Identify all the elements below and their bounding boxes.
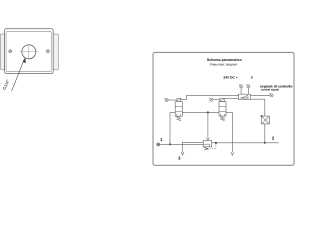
junction pilot branch — [207, 111, 209, 113]
port 1 symbol — [157, 143, 160, 146]
wire controller to restrictor branch — [250, 99, 264, 116]
rail regulator to port 2 — [212, 142, 279, 144]
port circle centerlines — [20, 44, 39, 59]
restrictor valve (square with X) — [262, 116, 270, 124]
pilot sense dashed line — [210, 144, 216, 149]
pilot line down to regulator — [207, 112, 209, 137]
controller U1 box — [239, 94, 251, 99]
exhaust arrow port 3 — [181, 152, 184, 155]
leader arrow to port — [12, 59, 25, 91]
mounting body left tab — [0, 34, 4, 70]
wire terminal to V2 coil — [213, 99, 220, 101]
V2 outlet to exhaust — [226, 112, 232, 152]
electrical terminal V1 coil — [164, 98, 168, 102]
line V1 to V2 — [182, 111, 219, 113]
regulator R1 box — [203, 140, 211, 146]
wire controller to control-signal terminal — [250, 94, 270, 96]
pilot arrowhead — [207, 138, 210, 141]
supply line V1 port — [170, 111, 175, 113]
screw hole right — [47, 50, 50, 53]
wire V1 coil to controller — [181, 95, 239, 99]
electrical terminal X3 control signal — [269, 93, 273, 97]
controller ramp symbol — [241, 95, 248, 98]
V2 body — [219, 102, 226, 117]
exhaust arrow right — [231, 152, 234, 155]
V1 return spring — [177, 116, 181, 121]
svg-text:Pneumatic diagram: Pneumatic diagram — [210, 63, 238, 67]
regulator inner passage — [203, 144, 209, 147]
wire V2 coil to controller — [224, 98, 238, 100]
svg-text:control signal: control signal — [261, 88, 279, 91]
schematic frame — [153, 52, 294, 165]
svg-text:Schema pneumatico: Schema pneumatico — [207, 58, 243, 62]
junction restrictor-rail — [264, 142, 266, 144]
svg-text:0: 0 — [251, 76, 253, 80]
V2 solenoid box — [220, 98, 224, 101]
wire restrictor to rail — [264, 124, 266, 143]
wire terminals to controller — [241, 88, 248, 94]
screw hole left — [9, 50, 12, 53]
wire V1 supply down to rail — [169, 112, 171, 144]
V1 body — [175, 102, 182, 117]
regulator exhaust branch to port 3 — [183, 142, 204, 152]
electrical terminal X2 (0V) — [246, 84, 250, 88]
V1 solenoid box — [177, 98, 181, 101]
junction supply-rail — [169, 143, 171, 145]
mounting body right tab — [53, 34, 58, 70]
electrical terminal X1 (24V) — [239, 84, 243, 88]
V2 return spring — [220, 116, 224, 121]
mounting body inner plate outline — [6, 32, 51, 72]
mounting body outer plate — [5, 29, 54, 74]
wire terminal to V1 coil — [168, 99, 177, 101]
svg-text:G1/4": G1/4" — [1, 78, 10, 90]
supply rail port1 to regulator — [160, 143, 204, 145]
port circle G1/4 — [22, 45, 36, 59]
svg-text:24V DC +: 24V DC + — [223, 76, 237, 80]
electrical terminal V2 coil — [209, 98, 213, 102]
regulator spring — [204, 147, 208, 150]
junction pilot sense — [215, 142, 217, 144]
